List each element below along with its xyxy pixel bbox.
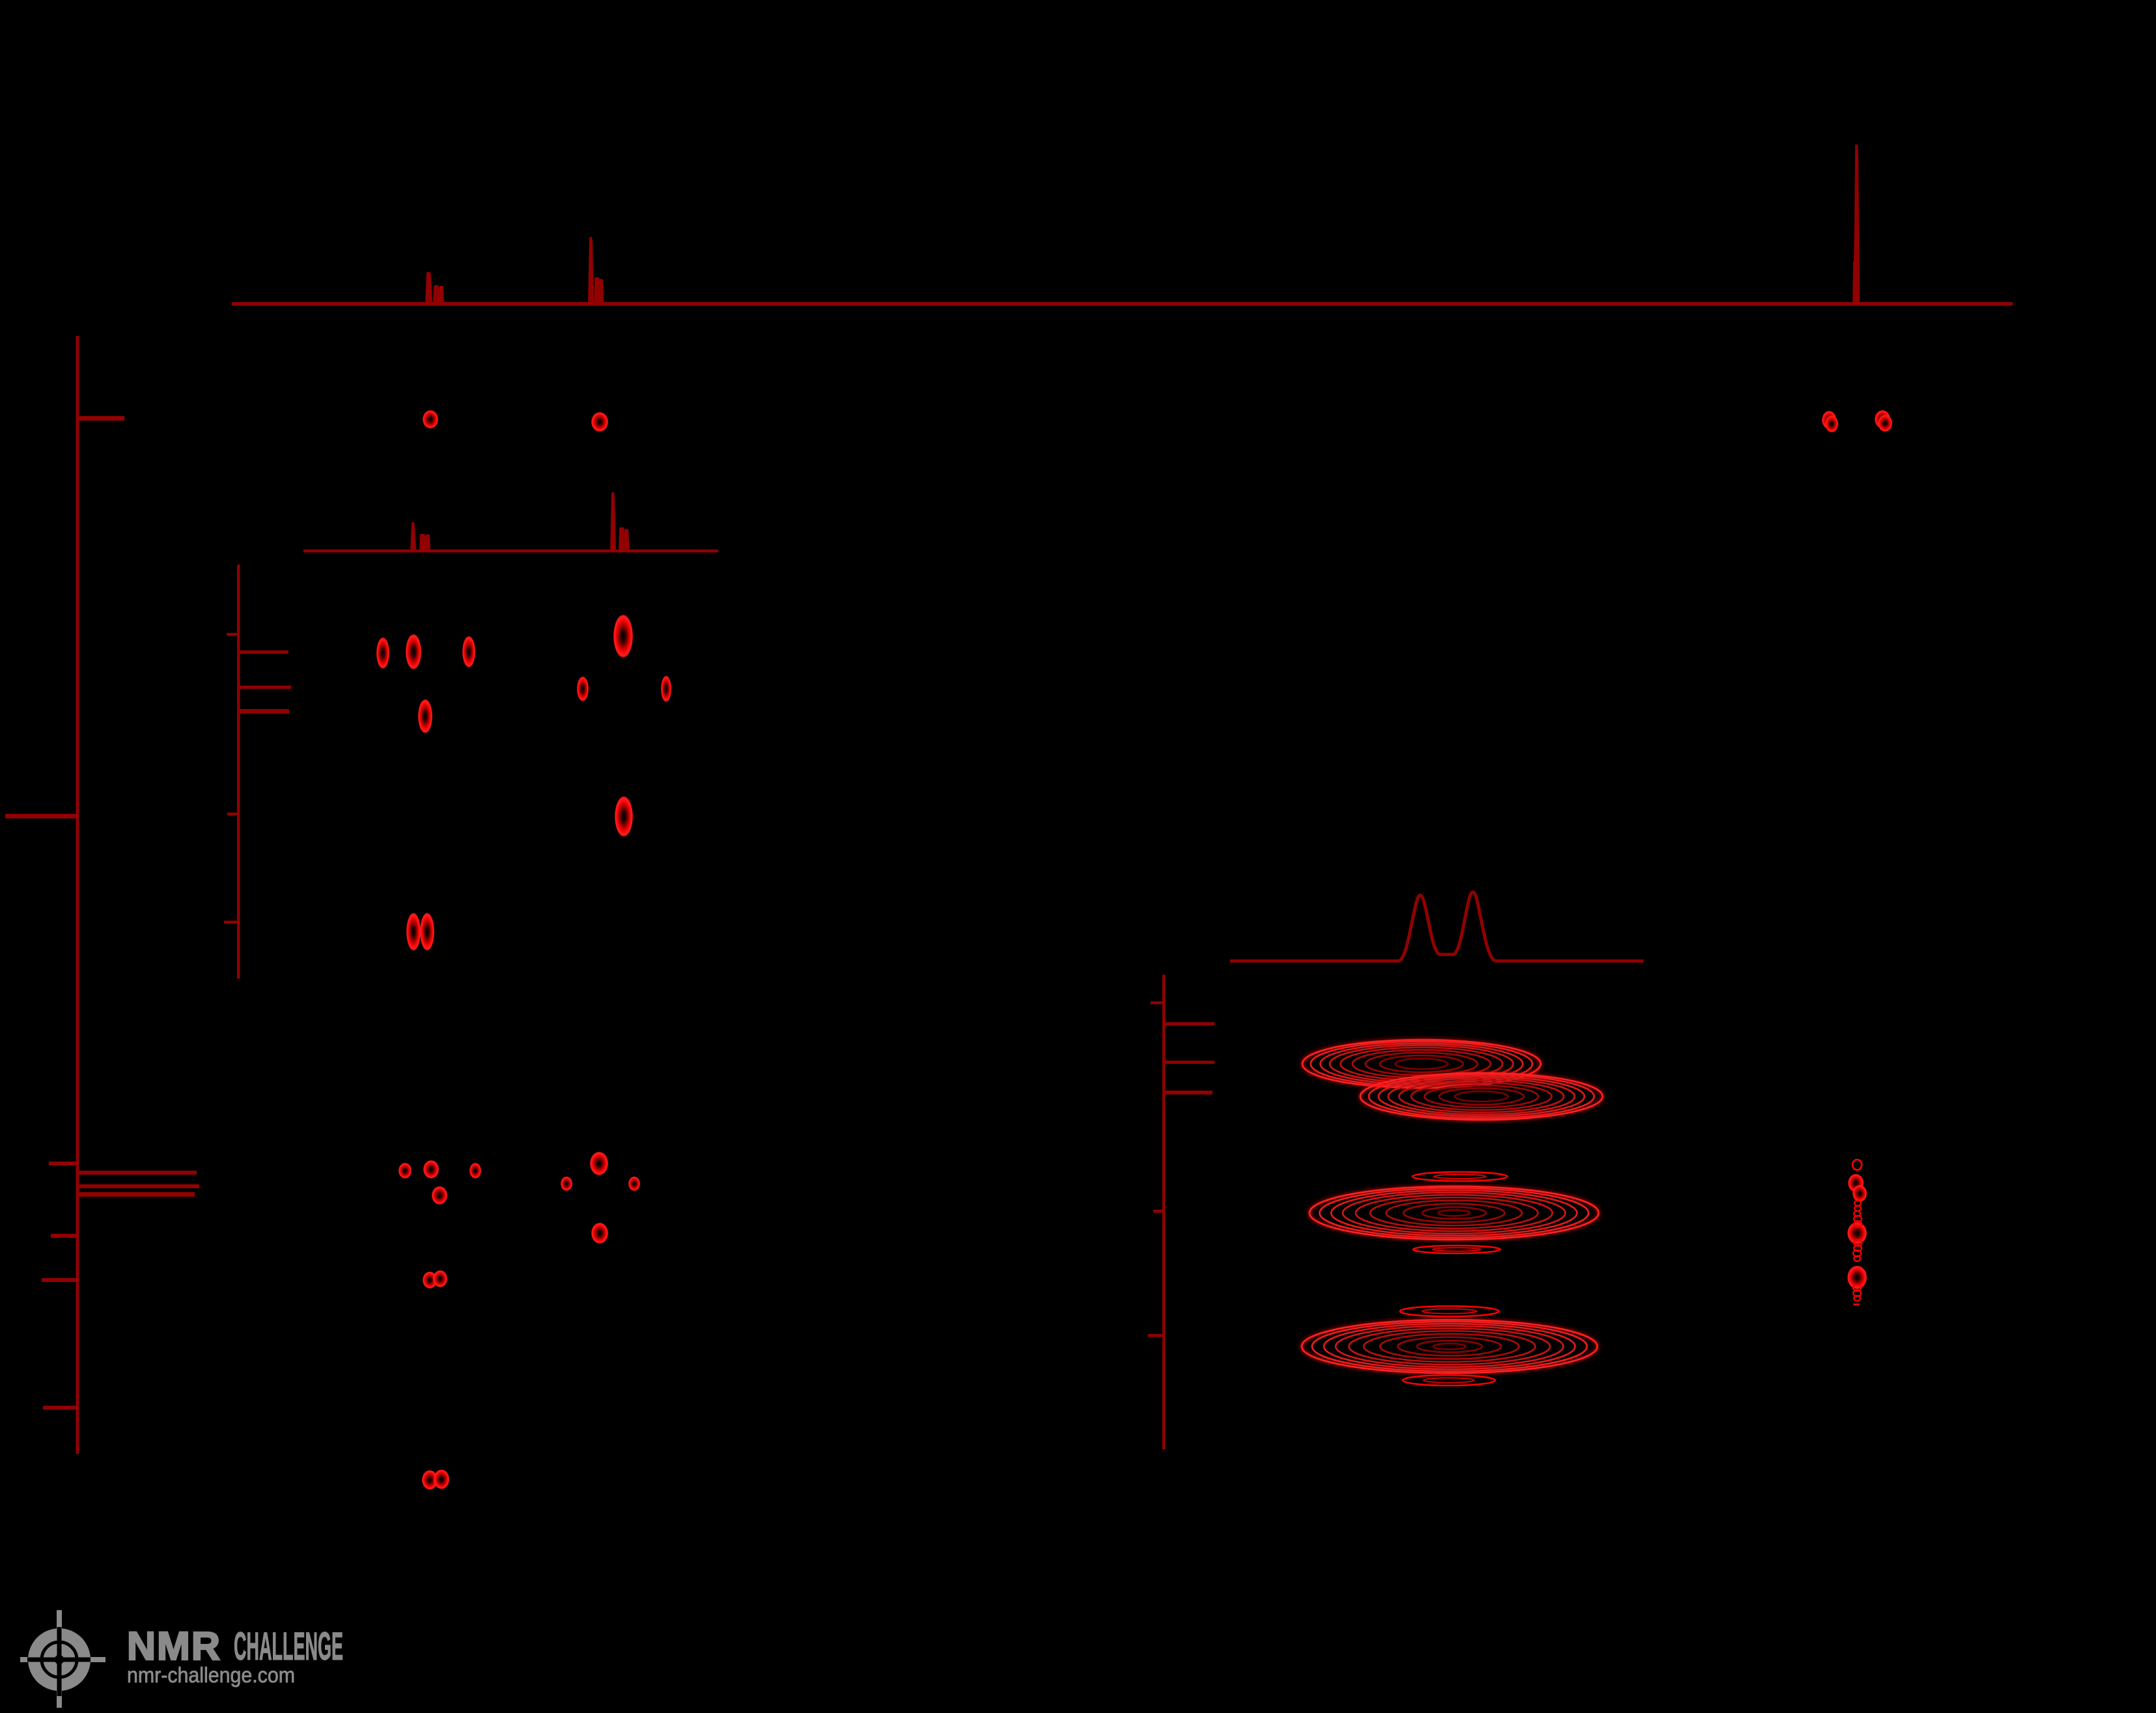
13C peak left at y1787	[49, 1162, 77, 1165]
right inset F1 axis vertical	[1162, 975, 1166, 1449]
top 1H tall peak at 2851	[1853, 145, 1860, 303]
multiplet ring (2852,1978)	[1853, 1285, 1861, 1291]
rt tick y2051	[1148, 1334, 1164, 1337]
13C peak right at y1801	[77, 1171, 197, 1175]
2D spot pair (660/677,2273)	[422, 1470, 438, 1490]
top 1H doublet at 919	[594, 277, 604, 303]
multiplet ring (2852,1994)	[1854, 1296, 1860, 1301]
rt peak y1678	[1164, 1091, 1212, 1094]
inset 1H doublet at 653	[419, 534, 430, 551]
cluster3 top lens	[1400, 1306, 1499, 1316]
left 13C axis/baseline vertical	[76, 336, 79, 1454]
13C peak right at y1834	[77, 1192, 195, 1197]
svg-text:nmr-challenge.com: nmr-challenge.com	[127, 1663, 295, 1687]
2D spot (2811,648)	[1822, 411, 1836, 429]
svg-text:CHALLENGE: CHALLENGE	[234, 1624, 343, 1668]
right inset contour blob cluster 1 lower	[1360, 1073, 1603, 1120]
13C peak left at y1966	[42, 1278, 77, 1282]
top 1H doublet at 674	[433, 285, 444, 303]
rt peak y1631	[1164, 1061, 1214, 1064]
multiplet tail dash	[1853, 1303, 1860, 1305]
2D spot (662,1796)	[423, 1160, 439, 1178]
crosshair center diamond	[50, 1650, 68, 1669]
cluster3 main blob	[1302, 1320, 1597, 1373]
crosshair gray stubs	[57, 1610, 62, 1629]
2D spot (622,1798)	[399, 1163, 412, 1178]
13C peak left at y2162	[43, 1406, 77, 1410]
rt peak y1572	[1164, 1022, 1214, 1025]
inset 1H peak at 942	[610, 492, 616, 551]
2D spot (661,644)	[423, 410, 438, 428]
multiplet blob (2852,1894)	[1847, 1222, 1867, 1244]
13C peak left at y1898	[51, 1234, 77, 1238]
inset 2D spot (1023,1058)	[661, 676, 671, 702]
inset 2D spot (653,1100)	[418, 699, 432, 733]
inset 2D spot (588,1003)	[376, 637, 389, 669]
multiplet blob (2850,1817)	[1848, 1174, 1864, 1192]
right inset top 1H doublet trace	[1230, 892, 1644, 961]
rt tick y1540	[1151, 1001, 1164, 1005]
inset 1H doublet at 959	[619, 527, 630, 551]
2D spot (921,1894)	[591, 1223, 608, 1244]
top 1H peak at 660	[425, 272, 432, 303]
crosshair inner black ring	[42, 1642, 77, 1677]
inset tick y974	[227, 633, 238, 636]
13C peak left at y1253	[5, 814, 77, 818]
multiplet chain top ring	[1853, 1160, 1862, 1170]
multiplet ring (2852,1933)	[1854, 1256, 1860, 1261]
2D spot (675,1836)	[432, 1186, 447, 1205]
cluster3 bottom lens	[1403, 1375, 1495, 1386]
inset 1H peak at 635	[410, 522, 416, 551]
inset tick y1250	[227, 813, 238, 816]
left inset 13C axis vertical	[237, 564, 240, 979]
multiplet ring (2853,1872)	[1854, 1216, 1862, 1222]
multiplet ring (2853,1856)	[1855, 1206, 1861, 1211]
multiplet blob (2852,1962)	[1847, 1266, 1867, 1289]
inset tick y1416	[224, 921, 238, 924]
multiplet ring (2853,1917)	[1854, 1245, 1862, 1251]
multiplet ring (2853,1848)	[1855, 1201, 1861, 1206]
top 1H spectrum baseline	[232, 302, 2013, 306]
multiplet ring (2852,1864)	[1854, 1211, 1860, 1216]
multiplet ring (2853,1880)	[1854, 1221, 1862, 1227]
svg-text:NMR: NMR	[127, 1624, 221, 1668]
inset 2D spot (958,1254)	[615, 796, 633, 837]
inset 13C peak y1001	[238, 650, 288, 654]
inset 2D spot (957,977)	[613, 615, 633, 658]
top 1H peak at 907	[588, 237, 594, 303]
2D spot (730,1798)	[469, 1163, 481, 1178]
cluster2 main blob	[1309, 1186, 1599, 1240]
inset 2D spot pair (635/655,1431)	[406, 913, 421, 951]
logo crosshair disk	[28, 1628, 91, 1691]
13C peak right at y1822	[77, 1184, 199, 1188]
right inset contour blob cluster 1 upper	[1302, 1040, 1541, 1088]
multiplet ring (2853,1909)	[1854, 1240, 1862, 1246]
2D spot (2893,647)	[1875, 410, 1890, 428]
2D spot (974,1818)	[628, 1177, 640, 1191]
cluster2 top lens	[1412, 1172, 1507, 1181]
2D spot (870,1818)	[561, 1177, 572, 1191]
inset 13C peak y1055	[238, 686, 291, 689]
multiplet ring (2852,1986)	[1853, 1290, 1861, 1296]
2D spot (921,648)	[591, 412, 608, 432]
multiplet blob (2856,1833)	[1853, 1185, 1867, 1202]
inset 2D spot (635,1001)	[406, 634, 421, 669]
13C peak right at y642	[77, 416, 124, 421]
2D spot pair (660/676,1965)	[423, 1272, 437, 1288]
inset 2D spot (895,1058)	[577, 676, 589, 701]
left inset top 1H trace baseline	[303, 550, 718, 553]
cluster2 bottom lens	[1413, 1246, 1500, 1253]
inset 13C peak y1092	[238, 709, 289, 714]
crosshair black cross	[57, 1627, 62, 1696]
rt tick y1860	[1153, 1210, 1164, 1213]
multiplet ring (2852,1925)	[1853, 1250, 1861, 1257]
inset 2D spot (720,1001)	[462, 636, 475, 667]
2D spot (920,1787)	[590, 1152, 608, 1175]
